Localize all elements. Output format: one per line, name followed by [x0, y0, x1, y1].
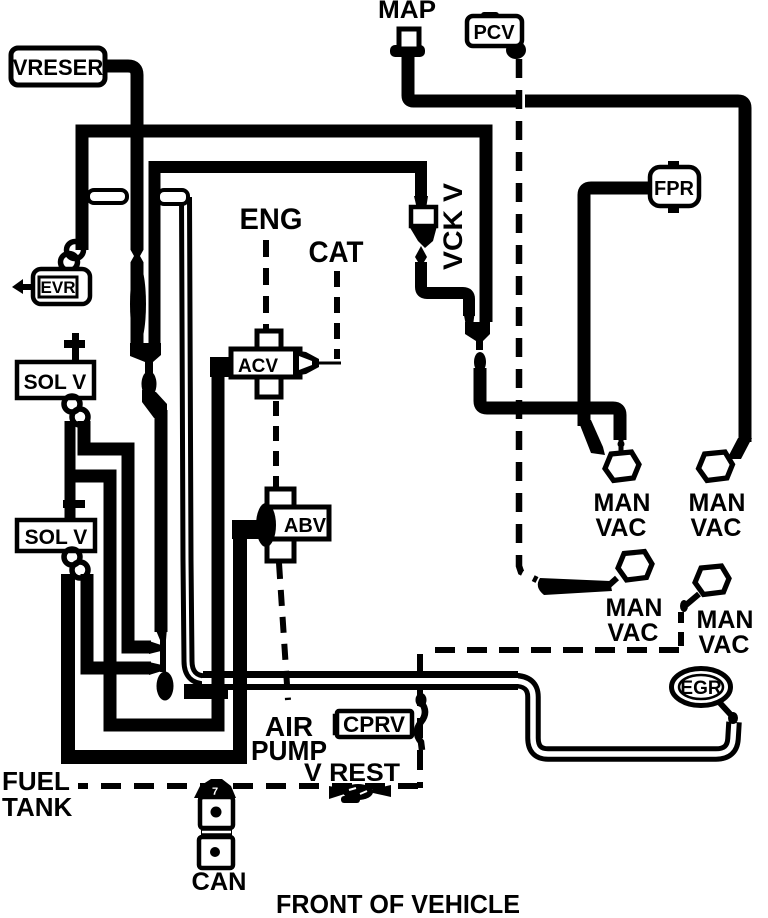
svg-text:VAC: VAC — [596, 514, 647, 542]
MAN VAC hexagon 3 — [618, 552, 652, 581]
dashed ABV down — [279, 563, 288, 700]
neck to hexagon 1 — [619, 440, 624, 455]
neck hexagon 4 — [686, 594, 699, 605]
MAP plug — [399, 29, 419, 49]
teardrop terminal E — [157, 672, 174, 701]
MAN VAC hexagon 1 — [605, 452, 639, 481]
SOL V 2 ring 2 — [72, 562, 88, 578]
ACV nozzle — [293, 350, 319, 376]
EVR arrow — [22, 284, 34, 290]
hose merge to MAN VAC 1 — [480, 368, 620, 440]
EVR ring 2 — [61, 254, 78, 271]
neck hexagon 3 — [607, 578, 617, 587]
svg-text:FRONT OF VEHICLE: FRONT OF VEHICLE — [276, 889, 520, 918]
ABV valve — [256, 489, 329, 561]
FPR foot to hexagon 1 — [578, 420, 605, 455]
CPRV box — [335, 711, 412, 737]
hose PCV to MAN VAC 3 — [538, 578, 612, 595]
coupler pill L2-F — [158, 190, 188, 204]
CPRV squiggle — [416, 693, 427, 750]
svg-text:CAT: CAT — [309, 236, 364, 269]
svg-text:VAC: VAC — [608, 619, 659, 647]
CAN canister — [194, 779, 236, 868]
svg-text:ACV: ACV — [238, 356, 278, 377]
ACV valve — [231, 331, 300, 397]
svg-text:EGR: EGR — [680, 678, 721, 699]
junction bar under hollow elbow — [184, 684, 228, 699]
dashed FUEL TANK line — [78, 783, 418, 789]
SOL V 1 ring 1 — [64, 396, 80, 412]
hose VRESER line L1 — [104, 66, 137, 350]
SOL V 2 vent cross — [63, 500, 85, 508]
VRESER box — [11, 48, 105, 85]
svg-text:V REST: V REST — [304, 759, 400, 787]
V REST valve — [329, 785, 391, 799]
hose SOLV1 right to manifold H1 — [84, 421, 151, 647]
svg-text:ENG: ENG — [240, 203, 303, 236]
hose FPR line — [584, 188, 649, 426]
MAP plug collar — [390, 45, 425, 57]
svg-text:VAC: VAC — [699, 631, 750, 659]
pinch on L1 — [130, 248, 145, 264]
EGR oval — [672, 669, 731, 706]
SOL V 1 box — [17, 362, 94, 398]
foot to MAN VAC 2 — [727, 438, 752, 459]
svg-text:CAN: CAN — [192, 868, 247, 896]
hose EGR hollow line — [186, 197, 735, 754]
svg-text:MAN: MAN — [594, 489, 651, 517]
ABV stub — [232, 520, 259, 539]
ACV stub — [210, 357, 234, 377]
SOL V 2 box — [17, 520, 95, 551]
hose SOLV2 left to ABV (outer U) — [68, 529, 259, 757]
svg-text:TANK: TANK — [2, 792, 73, 822]
wire horizontal y167 to VCK V — [155, 167, 422, 350]
hose SOLV2 right to manifold H2 — [87, 574, 151, 668]
wire main horizontal y131 — [82, 131, 486, 322]
svg-text:CPRV: CPRV — [343, 712, 405, 737]
svg-text:MAN: MAN — [606, 594, 663, 622]
SOL V 1 vent cross — [64, 333, 85, 362]
junction L1 L2 merge — [130, 343, 161, 373]
svg-text:ABV: ABV — [284, 515, 327, 537]
FPR box — [650, 161, 699, 213]
jog to E line — [142, 390, 167, 418]
teardrop below merge — [142, 371, 157, 397]
PCV box — [467, 12, 526, 59]
dashed ENG line — [263, 240, 269, 330]
coupler pill A-L1 — [88, 190, 127, 203]
SOL V 2 ring 1 — [64, 549, 80, 565]
dashed PCV line — [519, 59, 537, 580]
EGR nipple — [720, 703, 731, 715]
svg-text:FPR: FPR — [654, 178, 695, 200]
dashed line to hexagon 4 — [678, 612, 684, 646]
dashed ACV to ABV — [273, 401, 279, 489]
svg-text:VCK V: VCK V — [438, 183, 468, 270]
svg-text:MAN: MAN — [689, 489, 746, 517]
svg-text:VRESER: VRESER — [13, 55, 104, 80]
hose SOLV1 left to SOLV2 — [65, 421, 76, 521]
wire E manifold line — [155, 410, 168, 632]
SOL V 1 ring 2 — [72, 409, 88, 425]
wire nozzle to CAT — [319, 362, 341, 365]
junction merge to MAN VAC 1 — [465, 322, 490, 350]
dashed CAT line — [334, 271, 340, 359]
dashed horizontal y650 — [423, 647, 679, 653]
EVR ring 1 — [67, 242, 84, 259]
svg-text:MAN: MAN — [697, 606, 754, 634]
MAN VAC hexagon 2 — [699, 452, 733, 481]
svg-text:VAC: VAC — [691, 514, 742, 542]
bulge on L1 — [130, 263, 146, 345]
svg-text:EVR: EVR — [41, 278, 76, 297]
EVR box — [33, 269, 90, 304]
MAN VAC hexagon 4 — [695, 566, 729, 595]
svg-text:PCV: PCV — [473, 22, 515, 44]
hose VCK V chain — [409, 196, 475, 326]
svg-text:SOL V: SOL V — [24, 371, 87, 394]
hose tee to ACV (inner U) — [70, 367, 233, 725]
hose MAP line — [408, 52, 516, 101]
dashed vertical x420 — [417, 654, 423, 788]
svg-text:MAP: MAP — [378, 0, 436, 24]
svg-text:SOL V: SOL V — [25, 526, 88, 549]
